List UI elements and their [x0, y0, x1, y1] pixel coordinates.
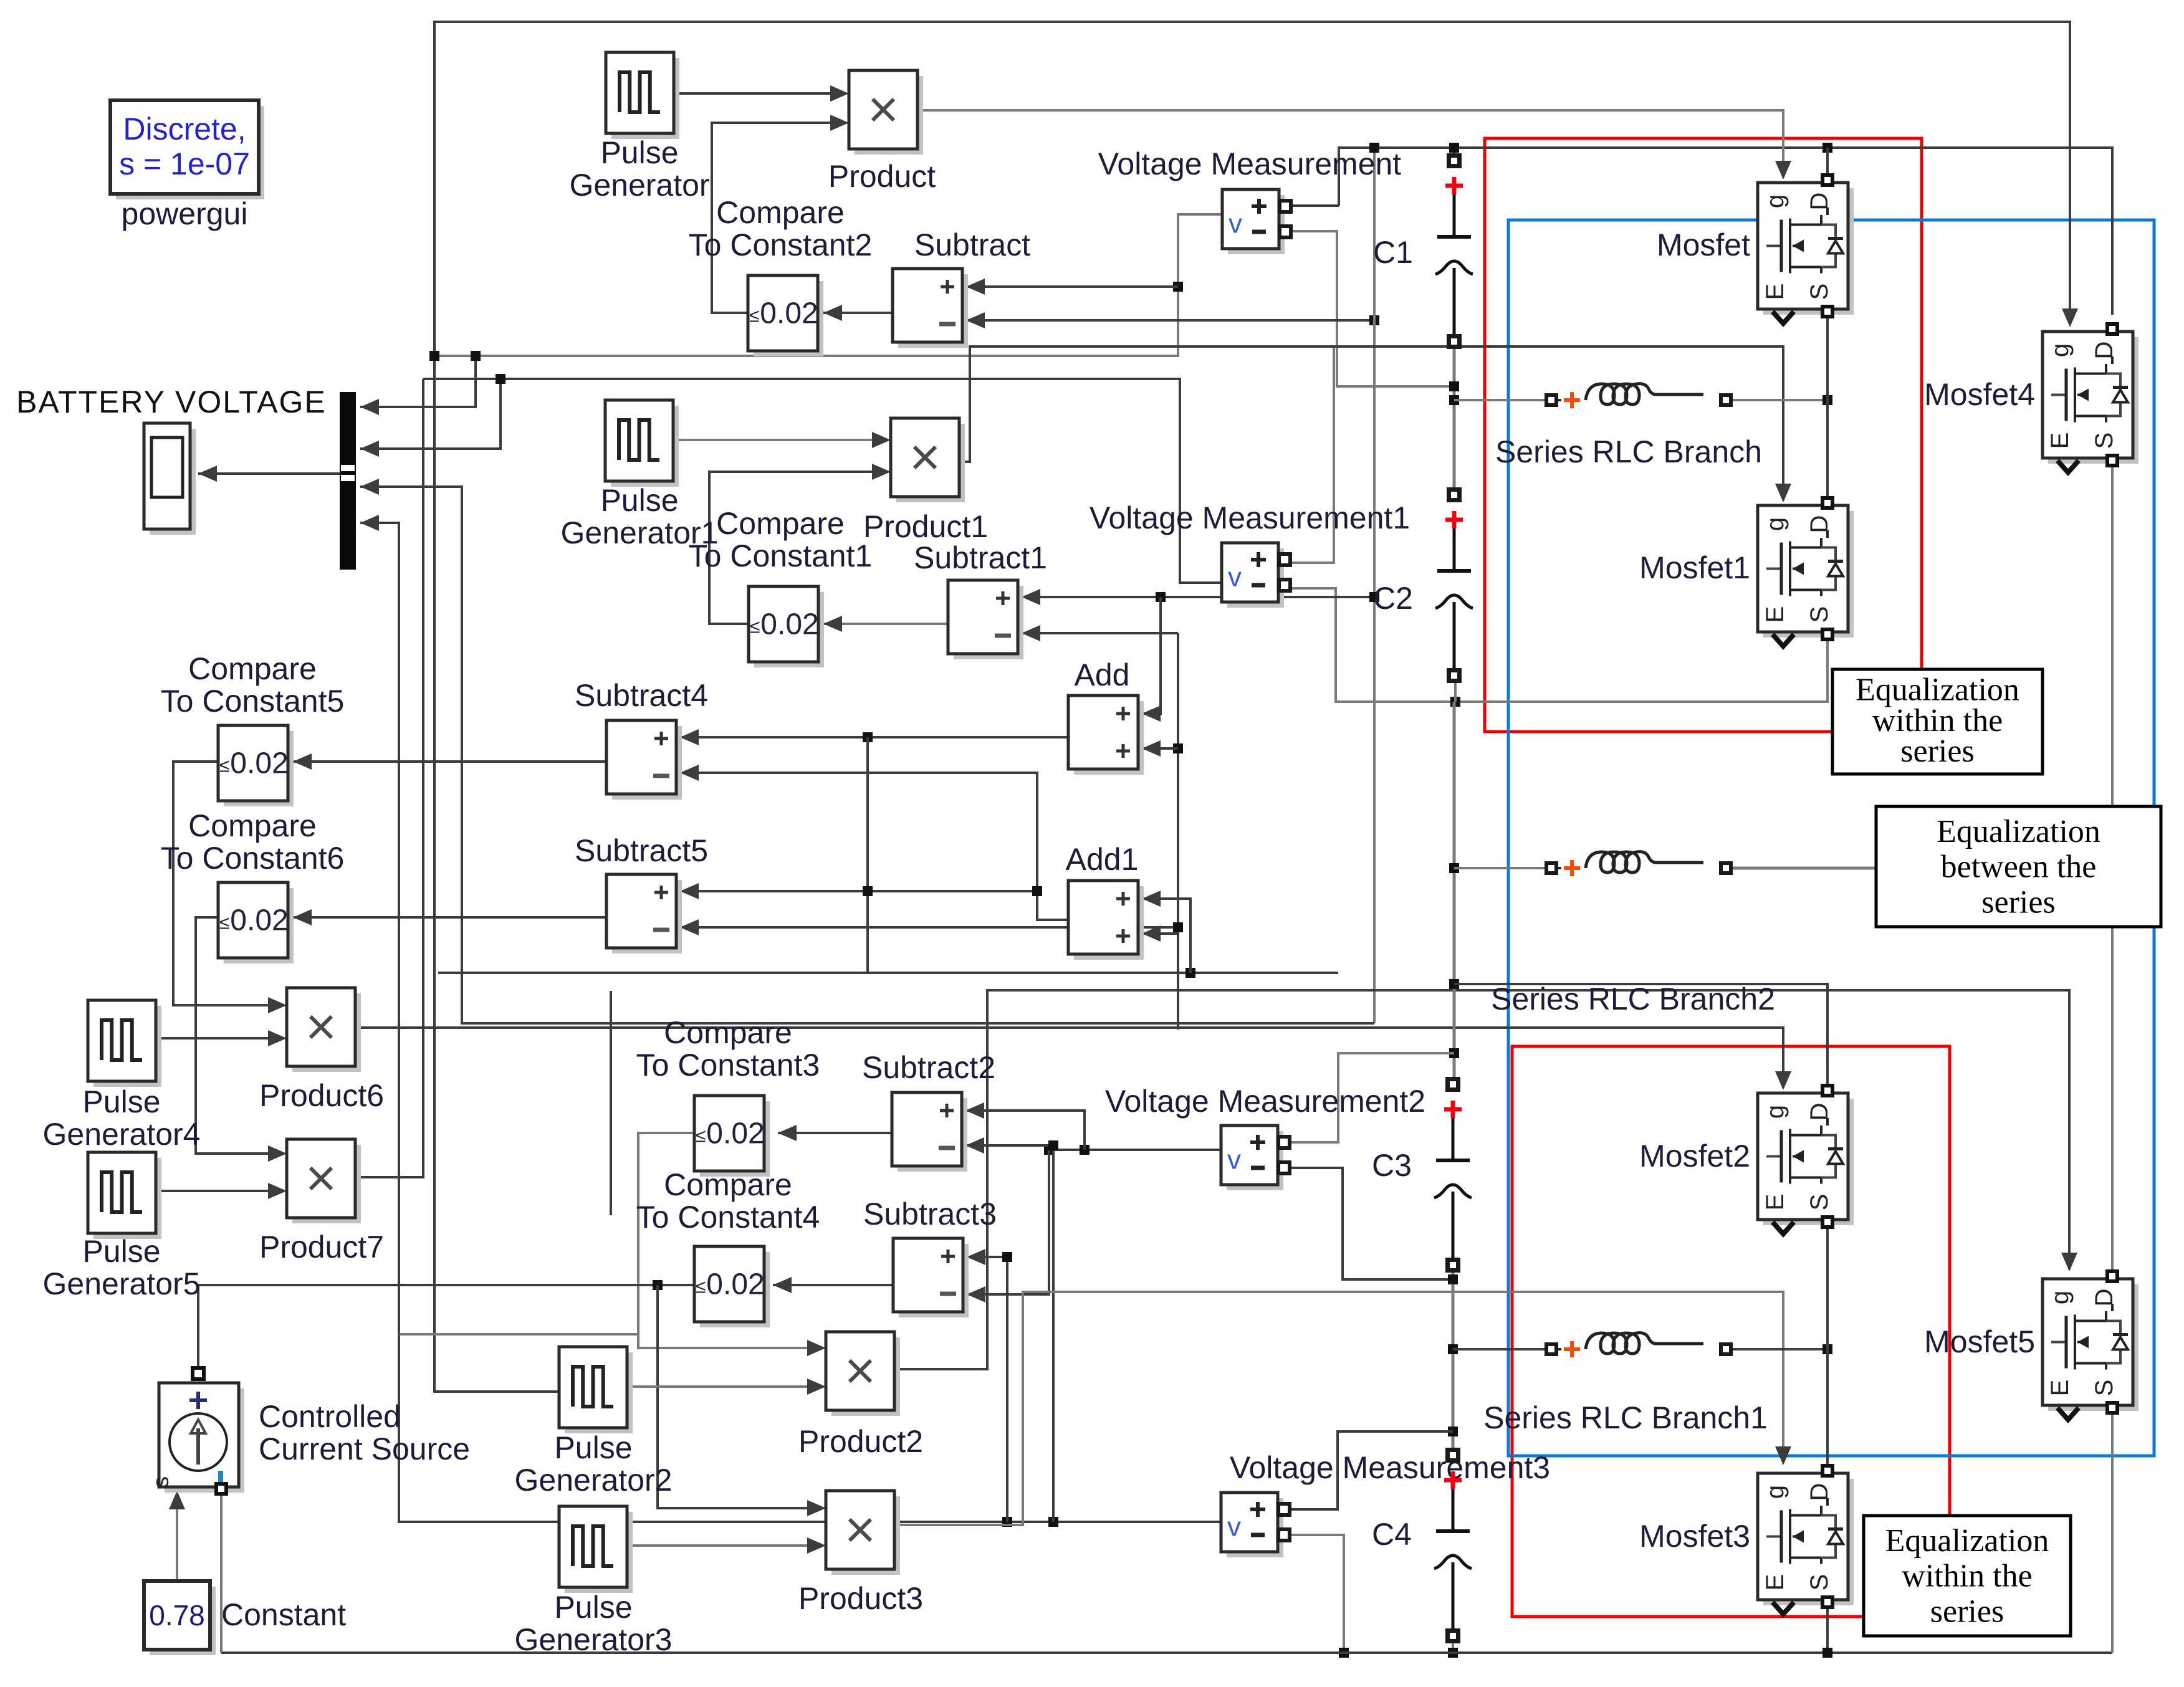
svg-text:≤: ≤: [219, 913, 229, 934]
wire: Subtract out to Compare2 input: [823, 312, 893, 314]
svg-text:0.02: 0.02: [230, 904, 288, 937]
wire: PG1 out to Product1 in1: [673, 439, 874, 441]
wire: Subtract3 minus branch: [1044, 1145, 1054, 1155]
svg-text:≤: ≤: [749, 306, 759, 327]
wire: Product6 out to Mosfet2 gate: [355, 1028, 1783, 1088]
voltage measurement block Voltage Measurement1: [1222, 543, 1292, 608]
svg-text:C2: C2: [1373, 581, 1413, 616]
wire: Compare4 out long line to CCS plus: [198, 1285, 694, 1380]
compare-to-constant block Compare To Constant3 (<= 0.02): [694, 1096, 770, 1177]
wire: VM1 output left and up to mux in2 line: [423, 379, 1222, 583]
svg-text:g: g: [1761, 194, 1789, 208]
wire: Mosfet3 S to bus: [1826, 1605, 1829, 1653]
svg-text:≤: ≤: [696, 1126, 706, 1147]
wire: y1579 line to Mosfet2 D riser: [1454, 984, 1827, 1084]
wire: x1392 riser down to y1561 line: [868, 737, 1338, 973]
voltage measurement block Voltage Measurement: [1222, 189, 1293, 254]
product block Product2: [826, 1332, 900, 1416]
svg-text:v: v: [1228, 209, 1242, 239]
red region box 2 (equalization within series, bottom): [1512, 1046, 1950, 1617]
wire: long vertical x697 down to PG2 left edge: [434, 356, 559, 1392]
svg-text:E: E: [2046, 1380, 2074, 1397]
svg-text:E: E: [1761, 1194, 1789, 1211]
svg-text:S: S: [2091, 1380, 2118, 1397]
svg-text:Controlled: Controlled: [259, 1399, 401, 1434]
svg-text:powergui: powergui: [122, 196, 248, 231]
svg-text:D: D: [2091, 342, 2118, 360]
svg-text:0.02: 0.02: [230, 747, 288, 780]
red region box 1 (equalization within series, top): [1485, 138, 1922, 732]
svg-text:Compare: Compare: [716, 506, 845, 541]
compare-to-constant block Compare To Constant4 (<= 0.02): [694, 1246, 770, 1327]
wire: Subtract5 plus line: [680, 890, 1037, 892]
product block Product3: [826, 1491, 900, 1575]
wire: PG4 out to Product6 in2: [156, 1037, 271, 1039]
svg-text:g: g: [1761, 1485, 1789, 1499]
wire: Product1 output to Mosfet1 gate: [960, 346, 1783, 500]
svg-text:g: g: [1761, 1105, 1789, 1119]
Subtract block: [893, 269, 968, 348]
mosfet block Mosfet2: [1758, 1093, 1854, 1234]
svg-text:Generator3: Generator3: [515, 1622, 673, 1657]
svg-text:Mosfet3: Mosfet3: [1639, 1519, 1750, 1554]
svg-text:Voltage Measurement: Voltage Measurement: [1098, 146, 1402, 181]
svg-text:Subtract4: Subtract4: [575, 678, 708, 713]
svg-text:C1: C1: [1373, 235, 1413, 270]
wire: Subtract1 out to Compare1 input: [823, 623, 948, 625]
wire: Mosfet5 S down to bus right end: [2111, 1410, 2114, 1653]
pulse generator Pulse Generator1: [605, 400, 679, 487]
svg-text:series: series: [1981, 884, 2055, 920]
wire: mux output to scope: [198, 472, 340, 475]
wire: Subtract2 plus branch: [1080, 1145, 1090, 1155]
svg-text:≤: ≤: [750, 617, 760, 638]
svg-text:S: S: [1806, 1574, 1833, 1591]
wire: VM3 plus riser to C3-C4 node: [1288, 1431, 1453, 1509]
wire: tap to Series RLC Branch: [1454, 399, 1545, 401]
capacitor C4: [1372, 173, 2161, 1643]
wire: Add in2 stub from x1890: [1173, 743, 1183, 753]
svg-text:Discrete,: Discrete,: [123, 112, 246, 146]
compare-to-constant block Compare To Constant6 (<= 0.02): [218, 882, 294, 963]
pulse generator Pulse Generator2: [559, 1347, 633, 1433]
wire: RLC branch1 out to Mosfet2 S node: [1733, 1348, 1827, 1350]
wire: VM2 output to subtract taps: [1049, 1149, 1221, 1151]
blue region box (equalization between series): [1508, 220, 2154, 1456]
wire: Compare2 out up to Product in2: [712, 123, 833, 313]
wire: mux in4 from VM3 output: [360, 523, 1221, 1522]
wire: PG5 out to Product7 in2: [156, 1190, 271, 1192]
svg-text:Product6: Product6: [259, 1078, 384, 1113]
svg-text:0.02: 0.02: [760, 608, 818, 641]
Subtract2 block: [892, 1092, 967, 1172]
wire: Subtract2 minus branch from x1690: [1048, 1517, 1058, 1527]
wire: long vertical x2205 from top bus down to y1617: [1373, 148, 1376, 1023]
scope block (battery voltage display): [144, 423, 196, 535]
Subtract1 block: [948, 580, 1023, 659]
wire: Compare3 out down to Product2 in1: [638, 1133, 810, 1348]
svg-text:s = 1e-07: s = 1e-07: [119, 146, 250, 181]
svg-text:≤: ≤: [696, 1277, 706, 1298]
wire: tap to Series RLC Branch2: [1454, 867, 1545, 869]
svg-text:g: g: [2046, 343, 2074, 357]
capacitor C1: [1372, 153, 2161, 1643]
svg-text:Product7: Product7: [259, 1230, 384, 1264]
compare-to-constant block Compare To Constant1 (<= 0.02): [749, 586, 824, 667]
constant block 0.78: [144, 1581, 216, 1655]
svg-text:Mosfet5: Mosfet5: [1924, 1324, 2035, 1359]
svg-text:Mosfet4: Mosfet4: [1924, 377, 2035, 412]
wire: x1890 vertical continues below: [1177, 934, 1179, 1030]
capacitor C3: [1372, 173, 2161, 1643]
product block Product1: [891, 418, 965, 502]
product block Product7: [287, 1139, 361, 1223]
voltage measurement block Voltage Measurement2: [1221, 1125, 1291, 1190]
wire: Subtract1 minus / Add1 in2 riser x1890: [1022, 632, 1178, 634]
wire: Product7 output riser joins y608 line: [355, 379, 423, 1177]
svg-text:BATTERY VOLTAGE: BATTERY VOLTAGE: [16, 385, 327, 419]
svg-text:Product: Product: [828, 159, 936, 194]
svg-text:To Constant4: To Constant4: [636, 1200, 820, 1235]
wire: Subtract5 out to Compare6 input: [293, 916, 606, 919]
svg-text:S: S: [1806, 606, 1833, 623]
wire: RLC branch out to Mosfet S-D node: [1733, 399, 1827, 401]
wire: Compare4 out down to Product3 in1: [658, 1285, 810, 1508]
wire: Add1 output to Subtract4 minus via x1664: [680, 773, 1068, 920]
svg-text:between the: between the: [1941, 849, 2097, 885]
product block Product: [849, 70, 923, 155]
svg-text:Compare: Compare: [188, 651, 317, 686]
powergui block: [110, 100, 264, 199]
wire: VM2 plus riser to C3 top node: [1288, 1053, 1454, 1142]
series RLC branch inductor Series RLC Branch1: [1545, 1333, 1733, 1357]
series RLC branch inductor Series RLC Branch: [1545, 384, 1733, 408]
svg-text:To Constant1: To Constant1: [689, 538, 873, 573]
svg-text:To Constant3: To Constant3: [636, 1048, 820, 1082]
wire: C1 bottom to C2 top vertical with taps: [1453, 342, 1456, 495]
svg-text:v: v: [1227, 1512, 1241, 1542]
svg-text:Pulse: Pulse: [600, 135, 678, 170]
wire: Subtract3 out to Compare4 input: [773, 1284, 893, 1286]
svg-text:s: s: [148, 1476, 173, 1488]
svg-text:Product1: Product1: [863, 509, 988, 544]
svg-text:Constant: Constant: [221, 1597, 346, 1632]
svg-text:Series RLC Branch2: Series RLC Branch2: [1491, 982, 1775, 1016]
Subtract5 block: [606, 874, 682, 953]
pulse generator Pulse Generator4: [88, 1000, 161, 1087]
wire: PG3 out to Product3 in2: [627, 1544, 810, 1547]
wire: VM minus down to C1-C2 node: [1288, 231, 1454, 386]
mosfet block Mosfet5: [2043, 1279, 2138, 1420]
Subtract3 block: [893, 1238, 969, 1317]
wire: Subtract1 plus from right: [1022, 596, 1374, 598]
svg-text:Compare: Compare: [716, 195, 845, 230]
wire: constant up to CCS control: [176, 1503, 178, 1581]
wire: riser x1862 to Add in1: [1142, 597, 1161, 714]
svg-text:Generator4: Generator4: [43, 1117, 201, 1152]
svg-text:Add: Add: [1075, 657, 1130, 692]
svg-text:C4: C4: [1372, 1517, 1412, 1552]
svg-text:Generator5: Generator5: [43, 1266, 201, 1301]
svg-text:E: E: [2046, 433, 2074, 449]
wire: y2141 line: [400, 1333, 638, 1336]
wire: Subtract4 out to Compare5 input: [293, 760, 606, 763]
svg-text:Product2: Product2: [798, 1424, 923, 1459]
wire: mux in3 from top bus tap via x2205 and y1642: [360, 487, 1374, 1023]
svg-text:Equalization: Equalization: [1885, 1523, 2049, 1559]
svg-text:Mosfet1: Mosfet1: [1639, 550, 1750, 585]
wire: CCS minus down to bus: [220, 1493, 223, 1653]
svg-text:0.02: 0.02: [706, 1117, 764, 1150]
svg-text:To Constant5: To Constant5: [161, 684, 345, 719]
wire: Mosfet4 S down to Mosfet5 D: [2111, 464, 2114, 1274]
svg-text:E: E: [1761, 284, 1789, 300]
wire: Subtract2 out to Compare3 input: [778, 1132, 892, 1134]
svg-text:Series RLC Branch: Series RLC Branch: [1495, 434, 1762, 469]
svg-text:Mosfet: Mosfet: [1657, 227, 1750, 262]
svg-text:S: S: [1806, 1194, 1833, 1211]
capacitor C2: [1372, 173, 2161, 1643]
svg-text:0.02: 0.02: [706, 1268, 764, 1301]
annotation box: Equalization within the series (bottom): [1864, 1516, 2071, 1636]
wire: Mosfet S to Mosfet1 D vertical: [1826, 313, 1829, 496]
svg-text:To Constant2: To Constant2: [689, 227, 873, 262]
wire: VM3 minus riser down to bottom bus: [1288, 1535, 1344, 1653]
Add block: [1068, 695, 1144, 775]
wire: Subtract minus input from x2205 vertical: [966, 319, 1374, 322]
svg-text:Subtract5: Subtract5: [575, 833, 708, 868]
Add1 block: [1068, 881, 1144, 960]
compare-to-constant block Compare To Constant5 (<= 0.02): [218, 725, 294, 806]
voltage measurement block Voltage Measurement3: [1221, 1493, 1291, 1557]
svg-text:series: series: [1900, 734, 1974, 769]
svg-text:Compare: Compare: [664, 1167, 792, 1202]
wire: short vertical segment x980: [610, 991, 612, 1215]
svg-text:Add1: Add1: [1066, 842, 1139, 877]
wire: Compare1 out up to Product1 in2: [709, 472, 874, 624]
mosfet block Mosfet4: [2043, 332, 2138, 472]
svg-text:D: D: [1806, 193, 1833, 211]
svg-text:v: v: [1228, 562, 1242, 593]
svg-text:v: v: [1227, 1145, 1241, 1175]
mux block: [340, 392, 356, 570]
mosfet block Mosfet: [1758, 183, 1854, 323]
pulse generator Pulse Generator3: [559, 1506, 633, 1593]
svg-text:Series RLC Branch1: Series RLC Branch1: [1483, 1400, 1768, 1435]
wire: Subtract5 minus from x1890 tap: [680, 926, 1178, 929]
svg-text:Voltage Measurement1: Voltage Measurement1: [1090, 500, 1410, 535]
wire: Mosfet D stub to top bus: [1826, 148, 1829, 176]
wire: top feedback to Mosfet4 gate: [434, 22, 2070, 356]
svg-text:D: D: [2091, 1289, 2118, 1307]
wire: bottom bus: [221, 1651, 2112, 1654]
wire: VM2 minus riser to C3 bottom node: [1288, 1168, 1454, 1279]
svg-text:E: E: [1761, 1574, 1789, 1591]
svg-text:Pulse: Pulse: [554, 1590, 632, 1625]
svg-text:series: series: [1930, 1594, 2004, 1629]
svg-text:S: S: [2091, 433, 2118, 449]
wire: C2 bottom to C3 top vertical with taps: [1454, 677, 1457, 702]
wire: tap to Series RLC Branch1: [1453, 1348, 1547, 1350]
product block Product6: [287, 988, 361, 1072]
wire: C4 bottom to bus: [1452, 1639, 1454, 1653]
svg-text:C3: C3: [1372, 1148, 1412, 1183]
wire: bus y237 (C1 top node): [1339, 148, 2112, 315]
svg-text:≤: ≤: [219, 756, 229, 777]
svg-text:D: D: [1806, 515, 1833, 533]
svg-text:Pulse: Pulse: [554, 1430, 632, 1465]
svg-text:Subtract2: Subtract2: [862, 1050, 995, 1085]
wire: Product output to Mosfet gate: [915, 110, 1783, 178]
wire: Mosfet2 S to Mosfet3 D vertical: [1826, 1226, 1829, 1464]
svg-text:Generator: Generator: [569, 168, 709, 203]
svg-text:0.78: 0.78: [149, 1599, 205, 1632]
annotation box: Equalization within the series (top): [1832, 669, 2043, 774]
svg-text:Subtract3: Subtract3: [863, 1197, 997, 1231]
svg-text:E: E: [1761, 606, 1789, 623]
wire: PG out to Product in1: [673, 92, 833, 95]
pulse generator Pulse Generator5: [88, 1152, 161, 1239]
wire: Subtract plus input from VM tap: [966, 285, 1178, 288]
wire: branch into mux in1: [360, 356, 476, 407]
svg-text:Subtract1: Subtract1: [914, 540, 1047, 575]
svg-text:Voltage Measurement2: Voltage Measurement2: [1105, 1084, 1425, 1119]
svg-text:Pulse: Pulse: [600, 483, 678, 518]
wire: branch into mux in2: [360, 379, 501, 449]
svg-text:Current Source: Current Source: [259, 1431, 470, 1466]
svg-text:Pulse: Pulse: [82, 1084, 160, 1119]
mosfet block Mosfet3: [1758, 1473, 1854, 1614]
svg-text:0.02: 0.02: [760, 297, 818, 330]
svg-text:Compare: Compare: [188, 808, 317, 843]
wire: VM1 minus riser down to C2 bottom bus: [1288, 588, 1827, 702]
svg-text:Compare: Compare: [664, 1015, 792, 1050]
wire: C3 bottom to C4 top vertical with taps: [1452, 1253, 1455, 1455]
svg-text:Voltage Measurement3: Voltage Measurement3: [1230, 1450, 1550, 1485]
svg-text:Subtract: Subtract: [914, 227, 1030, 262]
svg-text:Product3: Product3: [798, 1581, 923, 1616]
wire: VM plus stub: [1288, 204, 1339, 207]
svg-text:To Constant6: To Constant6: [161, 841, 345, 876]
wire: Product2 out riser and Mosfet5 gate line: [894, 990, 2069, 1369]
svg-text:Equalization: Equalization: [1937, 814, 2100, 849]
svg-text:S: S: [1806, 284, 1833, 300]
wire: y1561 dark line left stub: [438, 972, 868, 974]
wire: Compare5 out to Product6 in1: [173, 762, 271, 1005]
wire: Add output to Subtract4 plus: [680, 736, 1068, 738]
controlled current source block: [148, 1366, 244, 1496]
wire: VM1 plus riser to C1-C2 node bus: [1288, 347, 1334, 563]
wire: C-column node C1 stub: [1453, 148, 1455, 154]
wire: RLC branch2 out to annotation region: [1733, 867, 1877, 870]
compare-to-constant block Compare To Constant2 (<= 0.02): [748, 275, 823, 356]
svg-text:D: D: [1806, 1103, 1833, 1121]
series RLC branch inductor Series RLC Branch2: [1545, 852, 1733, 876]
svg-text:D: D: [1806, 1483, 1833, 1501]
mosfet block Mosfet1: [1758, 505, 1854, 646]
wire: PG2 out to Product2 in2: [627, 1385, 810, 1388]
pulse generator Pulse Generator: [606, 52, 679, 139]
wire: Subtract3 plus branch from x1616: [1002, 1517, 1012, 1527]
svg-text:g: g: [1761, 517, 1789, 531]
Subtract4 block: [606, 720, 682, 800]
wire: riser x1910 to Add1 in1: [1142, 899, 1190, 973]
svg-text:within the: within the: [1902, 1559, 2032, 1594]
annotation box: Equalization between the series: [1876, 806, 2161, 927]
svg-text:Pulse: Pulse: [82, 1234, 160, 1269]
wire: Product3 out riser and Mosfet3 gate line: [894, 1292, 1783, 1525]
wire: VM output to the left and down: [436, 214, 1222, 356]
svg-text:Generator2: Generator2: [515, 1463, 673, 1498]
svg-text:g: g: [2046, 1291, 2074, 1304]
wire: Compare6 out to Product7 in1: [196, 917, 271, 1154]
svg-text:Mosfet2: Mosfet2: [1639, 1139, 1750, 1173]
